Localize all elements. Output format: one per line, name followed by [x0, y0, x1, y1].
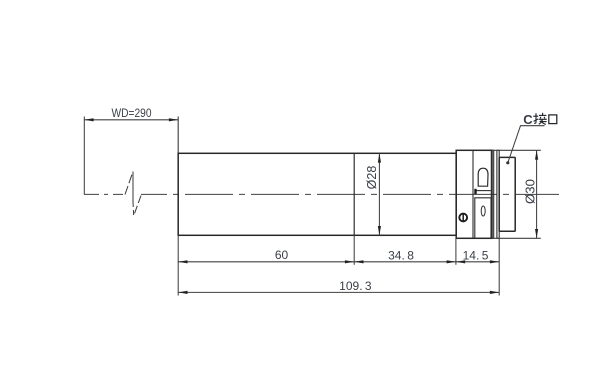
- svg-text:C: C: [523, 112, 533, 127]
- svg-text:Ø30: Ø30: [523, 179, 538, 204]
- svg-text:14. 5: 14. 5: [463, 248, 489, 262]
- svg-text:109. 3: 109. 3: [339, 279, 372, 293]
- svg-text:Ø28: Ø28: [365, 166, 379, 190]
- svg-text:34. 8: 34. 8: [388, 248, 414, 262]
- svg-text:60: 60: [275, 248, 289, 262]
- svg-text:WD=290: WD=290: [112, 108, 152, 120]
